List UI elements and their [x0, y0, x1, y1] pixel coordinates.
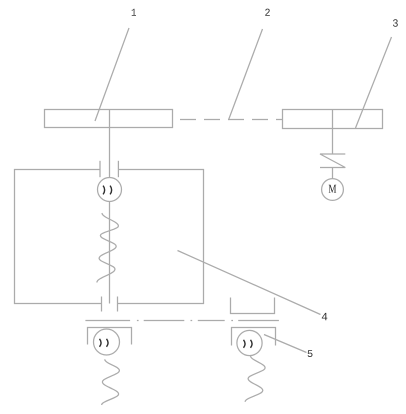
transducer circle top	[98, 178, 122, 202]
bottom gland ticks	[101, 297, 103, 312]
leader line to 2	[229, 29, 263, 120]
leader line to 3	[356, 37, 392, 128]
left mount bracket	[88, 328, 132, 345]
motor M circle	[322, 179, 344, 201]
top gland ticks	[99, 161, 101, 177]
leader line to 4	[178, 251, 321, 315]
cylinder body 3 (right rectangle)	[283, 110, 383, 129]
right coil spring	[245, 356, 265, 402]
right cup bracket	[231, 298, 275, 314]
label 4	[322, 313, 328, 320]
leader line to 1	[95, 28, 129, 121]
label 1	[132, 9, 136, 16]
right mount bracket	[232, 328, 276, 346]
wire from body 3 to spring	[332, 129, 334, 155]
wire circle to bottom	[109, 202, 111, 304]
centerline (dash-dot)	[85, 320, 279, 322]
right transducer circle	[237, 330, 262, 355]
label 5	[308, 350, 313, 357]
leader line to 5	[264, 335, 307, 353]
wire from body 1 down	[109, 128, 111, 178]
left coil spring	[102, 359, 120, 405]
tank box 4 (large square, gaps top and bottom)	[15, 170, 204, 304]
Z-spring symbol	[320, 154, 345, 168]
left transducer circle	[94, 329, 120, 355]
coil spring inside tank	[97, 213, 119, 283]
dashed link line 2	[180, 119, 283, 121]
cylinder body 1 (left rectangle)	[45, 110, 173, 128]
label 3	[393, 19, 398, 27]
label 2	[265, 9, 270, 16]
wire spring to motor	[332, 168, 334, 179]
